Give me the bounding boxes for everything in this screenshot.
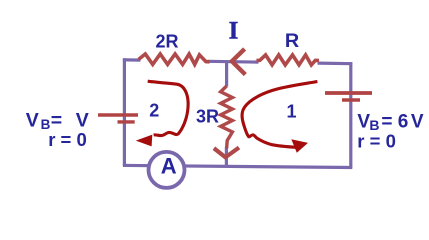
wire top right segment: [318, 61, 353, 65]
ammeter A: [149, 152, 185, 188]
arrow 3R current: [214, 148, 239, 158]
wire right: [349, 62, 352, 167]
battery VB left bottom plate: [118, 120, 135, 123]
loop arrow 2: [136, 81, 188, 146]
svg-text:3R: 3R: [196, 107, 219, 127]
svg-text:2: 2: [149, 100, 159, 120]
battery VB left top plate: [98, 113, 138, 117]
wire left: [123, 58, 126, 165]
svg-text:A: A: [161, 154, 177, 179]
svg-text:1: 1: [286, 102, 296, 122]
battery VB right bottom plate: [342, 98, 360, 101]
svg-text:r = 0: r = 0: [357, 131, 396, 152]
svg-text:2R: 2R: [155, 32, 178, 52]
svg-text:r = 0: r = 0: [48, 129, 87, 150]
battery VB right top plate: [325, 91, 372, 95]
loop arrow 1: [242, 82, 317, 153]
resistor 2R: [139, 54, 210, 64]
resistor 3R: [221, 86, 233, 149]
wire top middle segment: [208, 60, 259, 64]
svg-text:R: R: [285, 30, 299, 52]
wire middle stub bottom: [225, 147, 228, 167]
resistor R: [257, 55, 320, 65]
svg-text:I: I: [229, 18, 239, 45]
wire bottom: [123, 165, 352, 167]
wire top left segment: [123, 58, 141, 61]
wire middle stub top: [225, 62, 228, 87]
current I arrowhead: [232, 49, 245, 75]
